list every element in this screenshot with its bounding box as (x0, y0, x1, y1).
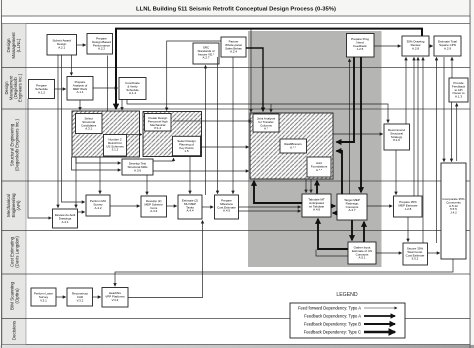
feedback A.5.1 up to A.4.7 (363, 222, 365, 242)
wire drop from y104 run into H3 top (270, 104, 272, 112)
box P.1.9 recommend structural strategy (384, 124, 410, 150)
box A.2.9 estimate total square CPN (434, 36, 461, 56)
legend arrow type feed-forward (364, 307, 397, 309)
box A.2.4 partner whole-panel review (221, 37, 246, 57)
svg-text:(Optira): (Optira) (15, 288, 20, 304)
wire V.3.3 right and up to A.2.3 bottom (128, 221, 203, 298)
wire incorporate up to A.1.5 bottom (456, 103, 458, 161)
legend box (290, 303, 405, 338)
wire A.2.8 to A.2.9 (429, 45, 433, 47)
wire J.2.8 up to A.2.8 (413, 57, 415, 196)
wire A.2.1 down to A.4.1 second (62, 55, 85, 202)
wire A.2.1 down to A.1.1 top (70, 55, 72, 75)
feed A.4.6 to A.4.7 (331, 205, 335, 207)
box A.2.1 submit award design (47, 35, 77, 56)
feedback J.2.5 down, left into H3 (336, 57, 354, 142)
feedback A.2.8 top across to H1 (type B) (116, 29, 422, 109)
wire A.1.1 to A.1.4 (93, 87, 118, 89)
wire H1 down to A.4.2 (99, 157, 101, 194)
wire H1 corner into A.3.6 left lower (72, 157, 121, 170)
wire A.3.6 right to H3 left (153, 170, 249, 172)
box incorporate 35% comments (tall) (441, 163, 466, 259)
wire V.3.2 to V.3.3 (93, 296, 101, 298)
svg-text:Feedback Dependency: Type A: Feedback Dependency: Type A (304, 313, 361, 318)
wire drop from feedback run into H3 top (250, 29, 252, 112)
box A.3.6 develop test structural models (122, 159, 153, 175)
box A.1.2 prepare schedule (29, 80, 55, 99)
wire A.2.2 down to H1 top (107, 56, 109, 112)
wire 1.5 right to H3 left (201, 146, 249, 148)
feedback A.4.7 down to A.5.1 (351, 220, 353, 240)
wire A.4.4 up to A.2.3 bottom (205, 65, 207, 195)
box A.2.3 SRC mandates review (193, 43, 219, 64)
box A.5.1 gather input estimates (348, 242, 376, 264)
hatched region H2 design criteria (143, 112, 202, 157)
box A.1.5 provide feedback to API owner (449, 78, 468, 102)
box A.1.4 coordinate and verify schedule (119, 78, 146, 100)
svg-text:(APi): (APi) (16, 200, 21, 211)
box J.2.5 prepare prog need feedback (347, 34, 375, 58)
wire 5.5.2 up to A.2.8 (422, 57, 424, 243)
box A.2.2 prepare design-based criteria (87, 34, 113, 55)
feedback A.5.1 left, up into A.4.6 bottom (318, 219, 348, 249)
box A.4.4 estimate MEP tasks (178, 195, 202, 219)
wire A.5.1 left stub (316, 250, 348, 257)
lane label column (2, 24, 26, 345)
wire A.2.9 down to incorporate (443, 57, 445, 162)
wire A.5.1 to 5.5.2 (376, 252, 402, 254)
wire A.1.5 up to A.2.9 (451, 57, 453, 78)
svg-text:Feed forward Dependency: Type: Feed forward Dependency: Type A (298, 305, 361, 310)
svg-text:(Davis Langdon): (Davis Langdon) (14, 236, 19, 268)
box V.3.3 model the VPP platforms (102, 288, 128, 308)
legend (290, 292, 405, 338)
wire A.1.4 down to H1 (121, 100, 123, 111)
wire 5.5.2 to incorporate (428, 252, 440, 254)
wire P.1.4 right to joint analysis (173, 120, 252, 122)
svg-text:Feedback Dependency: Type B: Feedback Dependency: Type B (304, 321, 361, 326)
wire A.3.6 up into H2 bottom (153, 158, 174, 161)
hatched region H1 scheme development (72, 111, 140, 157)
legend arrow feedback type B (364, 323, 395, 325)
hatched region H3 structural analysis (250, 113, 333, 179)
lane boundary lines (2, 68, 470, 319)
wire J.2.8 down to 5.5.2 (407, 217, 409, 242)
box A.4.7 target MEP redesign concepts (337, 194, 367, 220)
box A.2.8 35% drawing review (402, 36, 429, 56)
legend arrow feedback type A (364, 315, 395, 317)
wire incorporate down-left feedback to V.3.3 (115, 259, 453, 286)
bottom scan shadow strip (0, 345, 474, 348)
wire H1 down to A.4.1 top (75, 157, 77, 208)
wire H1 corner into A.3.6 left (76, 157, 121, 163)
wire H3 down to A.4.6 (305, 179, 307, 193)
wire P.1.9 up to A.2.8 (405, 57, 407, 124)
box V.3.1 perform laser survey (31, 288, 56, 306)
wire A.2.4 down to A.4.5 (217, 57, 219, 194)
wire J.2.8 up to A.2.8 second (417, 57, 419, 196)
svg-text:(Degenkolb Engineers Inc.): (Degenkolb Engineers Inc.) (14, 118, 19, 171)
box joint analysis transfer columns (253, 114, 279, 132)
box A.4.5 prepare milestone estimates (215, 195, 239, 219)
wire A.4.3 to A.4.4 (167, 205, 177, 207)
wire A.4.5 to A.4.6 lower (239, 210, 301, 212)
wire H3 down to A.4.6 second (310, 179, 312, 193)
feedback A.4.6 left, up into H3 bottom (254, 181, 302, 203)
wire H3 right into P.1.9 left (333, 133, 383, 135)
wire A.4.7 up to J.2.5 bottom (349, 59, 351, 194)
wire 3.1.2 to H2 (127, 134, 142, 136)
wire A.2.4 left then down into H2 top (167, 41, 221, 110)
wire A.1.5 down to incorporate (451, 102, 453, 162)
svg-text:Feedback Dependency: Type C: Feedback Dependency: Type C (304, 329, 361, 334)
thick feedback wires (116, 29, 422, 249)
legend arrow feedback type C (364, 331, 395, 334)
feedback A.4.6 up into H3 bottom (316, 181, 318, 194)
wire A.2.1 down to A.4.1 (57, 55, 59, 208)
box A.4.2 perform walk survey (86, 195, 110, 216)
box A.1.1 prepare analysis of MEP work (67, 77, 93, 101)
box A.3.1 select structural candidates (76, 114, 103, 134)
wire A.1.1 down to H1 (79, 100, 81, 110)
wires: thin feed-forward (28, 29, 457, 298)
wire A.4.2 to A.4.3 (110, 205, 140, 207)
lane labels (4, 32, 23, 341)
wire 5.5.2 up to A.2.9 (436, 57, 438, 243)
wire A.4.1 to A.4.2 (78, 211, 85, 213)
box A.4.3 develop MEP scheme concepts (141, 196, 167, 217)
box V.3.2 reconstruct existing CAD (67, 288, 93, 306)
wire 1.5 down to A.4.4 (189, 156, 191, 194)
feedback A.4.7 to A.4.6 (333, 212, 337, 214)
wire P.1.9 down to J.2.8 (395, 150, 397, 195)
box J.2.8 prepare 35% MEP estimate (394, 196, 423, 217)
svg-text:Engineers Inc.): Engineers Inc.) (18, 73, 23, 102)
box A.4.1 review as-built drawings (53, 209, 78, 228)
wire A.2.4 down to A.4.5 second (232, 57, 234, 194)
wire A.2.1 to A.2.2 (77, 44, 86, 46)
feedback A.2.4 right-down into H3 top (246, 48, 263, 111)
svg-text:Decisions: Decisions (12, 320, 17, 340)
box roof bracing (280, 139, 307, 153)
wire A.4.4 to A.4.5 (202, 206, 213, 208)
box P.1.4 create design criteria (145, 114, 172, 132)
box joint foundations (307, 157, 331, 177)
svg-text:(LLNL): (LLNL) (16, 38, 21, 52)
wire A.1.2 down-around to A.4.1 left (28, 99, 51, 219)
box A.4.6 tabulate MEP anticipated estimates (302, 194, 331, 217)
wire A.4.7 to J.2.8 (367, 205, 392, 207)
wire V.3.1 to V.3.2 (56, 296, 66, 298)
svg-text:LEGEND: LEGEND (336, 292, 358, 298)
wire A.3.6 down to A.4.3 (146, 175, 148, 195)
frame side borders full height (1, 0, 3, 348)
feedback A.4.6 up, left into H3 (336, 151, 342, 194)
box 1.5 select design key points (173, 136, 201, 155)
box 3.1.2 develop retrofit schemes (104, 135, 127, 157)
gray region (248, 31, 382, 267)
box 5.5.2 prepare 35% total construction cost estimate (403, 243, 428, 265)
wire A.4.5 to A.4.6 (239, 206, 301, 208)
wire A.1.4 down, long run right to P.1.9 top (127, 100, 388, 123)
svg-text:LLNL Building 511 Seismic Retr: LLNL Building 511 Seismic Retrofit Conce… (136, 7, 336, 13)
wire J.2.5 to A.2.8 (374, 45, 401, 47)
feedback J.2.5 down to A.4.7 (360, 57, 362, 192)
wire A.1.2 to A.1.1 (55, 88, 66, 90)
